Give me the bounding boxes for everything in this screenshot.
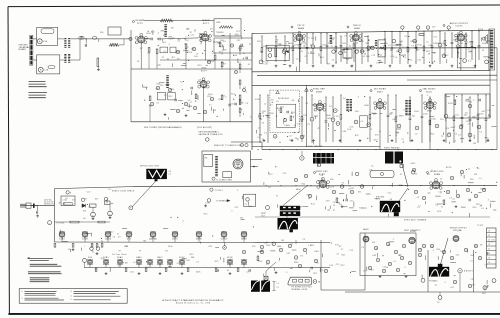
svg-text:M3: M3 [371,270,374,272]
svg-text:L4: L4 [479,178,481,180]
svg-text:RINGING: RINGING [376,197,385,199]
svg-text:R14: R14 [231,93,235,95]
svg-text:270K: 270K [369,46,375,48]
svg-text:C3: C3 [306,103,309,105]
svg-text:470K: 470K [328,42,334,44]
svg-text:1W: 1W [362,186,365,188]
svg-text:5%: 5% [199,79,202,81]
svg-text:1 MEG: 1 MEG [286,43,293,45]
svg-text:C3: C3 [276,101,279,103]
svg-text:R22: R22 [411,41,415,43]
svg-text:M3: M3 [125,263,128,265]
svg-text:10%: 10% [289,140,293,142]
svg-text:.01: .01 [481,208,484,210]
svg-text:47: 47 [341,249,343,251]
svg-text:C12: C12 [371,55,375,57]
svg-text:68: 68 [165,251,167,253]
svg-text:68: 68 [321,175,323,177]
svg-text:C9: C9 [361,247,364,249]
svg-text:5%: 5% [210,29,213,31]
svg-text:C9: C9 [342,182,345,184]
svg-text:47: 47 [209,105,211,107]
svg-text:R14: R14 [311,203,315,205]
svg-text:C12: C12 [408,60,412,62]
svg-text:C31: C31 [237,40,241,42]
svg-text:M3: M3 [390,50,393,52]
svg-text:BOARD: BOARD [19,48,27,51]
svg-text:10%: 10% [217,43,221,45]
svg-text:47: 47 [454,37,456,39]
svg-text:.01: .01 [290,244,293,246]
svg-text:A PHOTOFACT STANDARD NOTATION: A PHOTOFACT STANDARD NOTATION SCHEMATIC [162,299,223,302]
svg-text:47: 47 [333,210,335,212]
svg-text:5%: 5% [469,52,472,54]
svg-text:.01: .01 [430,247,433,249]
svg-text:R22: R22 [215,261,219,263]
svg-text:C9: C9 [485,265,488,267]
svg-text:R7: R7 [339,246,342,248]
svg-text:F: F [70,192,71,194]
svg-text:R14: R14 [259,261,263,263]
svg-text:12DQ6A: 12DQ6A [453,229,462,232]
svg-text:R22: R22 [431,134,435,136]
svg-text:1500: 1500 [277,44,282,46]
svg-text:R7: R7 [390,114,393,116]
svg-text:C3: C3 [246,103,249,105]
svg-text:6CL6: 6CL6 [426,91,432,93]
svg-text:1 MEG: 1 MEG [467,42,474,44]
svg-text:4.5: 4.5 [468,60,471,62]
svg-text:.5: .5 [487,199,489,201]
svg-text:M3: M3 [281,240,284,242]
svg-text:18: 18 [488,231,490,233]
svg-text:C9: C9 [344,36,347,38]
svg-text:DEFLECTION YOKE: DEFLECTION YOKE [140,165,160,167]
svg-text:47: 47 [117,234,119,236]
svg-text:22: 22 [262,139,264,141]
svg-text:C31: C31 [403,110,407,112]
svg-text:L4: L4 [238,62,240,64]
svg-text:M3: M3 [417,50,420,52]
svg-text:L4: L4 [307,37,309,39]
svg-text:M3: M3 [348,57,351,59]
svg-text:R22: R22 [204,213,208,215]
svg-text:R22: R22 [208,61,212,63]
svg-text:4700: 4700 [417,45,422,47]
svg-text:R22: R22 [341,265,345,267]
svg-text:.01: .01 [177,41,180,43]
svg-text:AUDIO OUTPUT: AUDIO OUTPUT [450,22,469,25]
svg-text:4BN6: 4BN6 [354,28,361,30]
svg-text:WHEN SET TO REMOTE RESET: WHEN SET TO REMOTE RESET [214,145,244,147]
svg-text:.01: .01 [470,260,473,262]
svg-text:L4: L4 [436,205,438,207]
svg-text:VERT OSC: VERT OSC [316,171,328,173]
svg-text:L4: L4 [454,141,456,143]
svg-text:3.: 3. [71,291,73,293]
svg-text:T2: T2 [276,196,278,198]
svg-text:47: 47 [162,57,164,59]
svg-text:68: 68 [292,100,294,102]
svg-text:10%: 10% [330,187,334,189]
svg-text:.01: .01 [166,58,169,60]
svg-text:C12: C12 [388,192,392,194]
svg-text:.003: .003 [372,255,376,257]
svg-text:680K: 680K [359,41,365,43]
svg-text:10%: 10% [347,129,351,131]
svg-text:TO TUNER TERM: TO TUNER TERM [216,180,232,182]
svg-text:.01: .01 [452,199,455,201]
svg-text:L4: L4 [303,136,305,138]
svg-text:C12: C12 [297,123,301,125]
svg-text:C9: C9 [118,237,121,239]
svg-text:L4: L4 [455,134,457,136]
svg-text:4.5: 4.5 [361,121,364,123]
svg-text:.5: .5 [426,95,428,97]
svg-text:10%: 10% [460,124,464,126]
svg-text:R7: R7 [213,61,216,63]
svg-text:5%: 5% [329,106,332,108]
svg-text:R14: R14 [379,55,383,57]
svg-text:.001: .001 [300,119,304,121]
svg-text:56K: 56K [355,111,359,113]
svg-text:VHF TUNER (INTERCHANGEABLE): VHF TUNER (INTERCHANGEABLE) [144,126,182,129]
svg-text:10%: 10% [465,100,469,102]
svg-text:.5: .5 [473,100,475,102]
svg-text:47: 47 [190,102,192,104]
svg-text:C12: C12 [477,113,481,115]
svg-text:C3: C3 [479,132,482,134]
svg-text:L4: L4 [440,179,442,181]
svg-text:.01: .01 [415,173,418,175]
svg-text:1ST IF: 1ST IF [297,25,305,27]
svg-text:47: 47 [474,246,476,248]
svg-text:C12: C12 [383,266,387,268]
svg-text:T2: T2 [187,29,189,31]
svg-text:10%: 10% [207,96,211,98]
svg-text:.1: .1 [392,239,394,241]
svg-text:L4: L4 [148,53,150,55]
svg-text:SPKR: SPKR [478,29,484,31]
svg-text:47: 47 [305,56,307,58]
svg-text:.0015: .0015 [410,163,415,165]
svg-text:VERT: VERT [261,213,266,215]
svg-text:1W: 1W [259,134,262,136]
svg-text:C9: C9 [411,46,414,48]
svg-text:68: 68 [208,36,210,38]
svg-text:M3: M3 [358,191,361,193]
svg-text:4700: 4700 [453,40,458,42]
svg-text:R14: R14 [307,194,311,196]
svg-text:8CY7: 8CY7 [201,70,208,72]
svg-text:R7: R7 [177,59,180,61]
svg-text:6AX4: 6AX4 [136,256,141,259]
svg-text:M3: M3 [338,203,341,205]
svg-text:C31: C31 [258,116,262,118]
svg-text:R22: R22 [169,96,173,98]
svg-text:TO PIN 3: TO PIN 3 [215,190,223,192]
svg-text:M3: M3 [83,211,86,213]
svg-text:R14: R14 [280,106,284,108]
svg-text:.068: .068 [470,255,474,257]
svg-text:5%: 5% [191,49,194,51]
svg-text:.01: .01 [487,110,490,112]
svg-text:MIXER: MIXER [202,20,210,22]
svg-text:10K: 10K [262,111,266,113]
svg-text:R22: R22 [313,273,317,275]
svg-text:M3: M3 [240,217,243,219]
svg-text:3.9: 3.9 [169,171,172,173]
svg-text:R22: R22 [198,65,202,67]
svg-text:B BOOST: B BOOST [464,271,473,273]
svg-text:.01: .01 [383,39,386,41]
svg-text:C12: C12 [87,192,91,194]
svg-text:1.0K: 1.0K [264,64,269,66]
svg-text:.5: .5 [491,242,493,244]
svg-text:M3: M3 [95,198,98,200]
svg-text:R22: R22 [302,184,306,186]
svg-text:.047: .047 [286,253,290,255]
svg-text:10%: 10% [326,200,330,202]
svg-text:INTERLOCK: INTERLOCK [44,204,56,206]
svg-text:.01: .01 [399,174,402,176]
svg-text:5%: 5% [316,262,319,264]
svg-text:.047: .047 [450,287,454,289]
svg-text:.01: .01 [248,43,251,45]
svg-text:18: 18 [488,244,490,246]
svg-text:M3: M3 [144,240,147,242]
svg-text:.01: .01 [293,125,296,127]
svg-text:R7: R7 [270,104,273,106]
svg-text:R14: R14 [374,139,378,141]
svg-text:.5: .5 [168,44,170,46]
svg-text:1500: 1500 [414,111,419,113]
svg-text:470K: 470K [255,99,261,101]
svg-text:.02: .02 [348,46,351,48]
svg-text:R22: R22 [342,255,346,257]
svg-text:68: 68 [271,100,273,102]
svg-text:.01: .01 [434,284,437,286]
svg-text:C3: C3 [65,198,68,200]
svg-text:18: 18 [488,258,490,260]
svg-text:R7: R7 [222,63,225,65]
svg-text:.01: .01 [300,51,303,53]
svg-text:C12: C12 [235,34,239,36]
svg-text:22: 22 [333,205,335,207]
svg-text:C3: C3 [321,270,324,272]
svg-text:1500: 1500 [423,113,428,115]
svg-text:SHOWN IN TUNER POS: SHOWN IN TUNER POS [199,134,224,136]
svg-text:1W: 1W [380,203,383,205]
svg-text:L4: L4 [395,57,397,59]
svg-text:R14: R14 [101,258,105,260]
svg-text:10%: 10% [238,48,242,50]
svg-text:C31: C31 [417,60,421,62]
svg-text:4BZ7: 4BZ7 [377,91,383,93]
svg-text:2.1: 2.1 [277,287,280,289]
svg-text:1.: 1. [22,291,24,293]
svg-text:68: 68 [260,119,262,121]
svg-text:10%: 10% [445,128,449,130]
svg-text:120: 120 [440,119,444,121]
svg-text:R22: R22 [190,254,194,256]
svg-text:4.: 4. [71,296,73,298]
svg-text:R14: R14 [331,38,335,40]
svg-text:RF AMP: RF AMP [136,19,145,22]
svg-text:.01: .01 [415,134,418,136]
svg-text:100K: 100K [301,43,307,45]
svg-text:R22: R22 [149,105,153,107]
svg-text:100K: 100K [482,43,488,45]
svg-text:M3: M3 [59,203,62,205]
svg-text:.0047: .0047 [436,43,442,45]
svg-text:3300: 3300 [263,46,268,48]
svg-text:L4: L4 [474,48,476,50]
svg-text:R7: R7 [414,240,417,242]
svg-text:OSC: OSC [201,68,206,70]
svg-text:10%: 10% [188,52,192,54]
svg-text:3300: 3300 [294,262,299,264]
svg-text:SYNC SEP: SYNC SEP [313,89,326,91]
svg-text:.02: .02 [246,272,249,274]
svg-text:C12: C12 [145,267,149,269]
svg-text:L4: L4 [264,104,266,106]
svg-text:22: 22 [186,47,188,49]
svg-text:C3: C3 [113,236,116,238]
svg-text:5%: 5% [141,43,144,45]
svg-text:1000: 1000 [168,246,173,248]
svg-text:C3: C3 [264,133,267,135]
svg-text:6DA4: 6DA4 [117,256,122,259]
svg-text:M3: M3 [474,174,477,176]
svg-text:9U8A: 9U8A [434,173,440,176]
svg-text:Howard W. Sams & Co., Inc. 195: Howard W. Sams & Co., Inc. 1958 [176,302,210,305]
svg-text:R7: R7 [275,166,278,168]
svg-text:5.2: 5.2 [169,173,172,175]
svg-text:C31: C31 [369,170,373,172]
svg-text:22K: 22K [303,115,307,117]
svg-text:6AW8A: 6AW8A [149,238,157,241]
svg-text:1W: 1W [241,103,244,105]
svg-text:C9: C9 [485,38,488,40]
svg-text:C12: C12 [191,34,195,36]
svg-text:.01: .01 [221,232,224,234]
svg-text:68: 68 [448,133,450,135]
svg-text:68: 68 [406,47,408,49]
svg-text:.01: .01 [68,249,71,251]
svg-text:47: 47 [417,197,419,199]
svg-text:5.: 5. [71,299,73,301]
svg-text:C3: C3 [302,239,305,241]
svg-text:M3: M3 [261,250,264,252]
svg-text:.01: .01 [332,60,335,62]
svg-text:100K: 100K [364,105,370,107]
svg-text:M3: M3 [178,39,181,41]
svg-text:C9: C9 [118,266,121,268]
svg-text:.022: .022 [208,246,212,248]
svg-text:R14: R14 [157,84,161,86]
svg-text:680K: 680K [296,189,301,191]
svg-text:AGC: AGC [233,54,238,57]
svg-text:.01: .01 [362,56,365,58]
svg-text:47: 47 [402,139,404,141]
svg-text:C31: C31 [428,45,432,47]
svg-text:.001: .001 [411,115,415,117]
svg-text:C3: C3 [268,187,271,189]
svg-text:68: 68 [223,41,225,43]
svg-text:1 MEG: 1 MEG [397,115,404,117]
svg-text:3BU8: 3BU8 [316,91,323,93]
svg-text:TO 12B4: TO 12B4 [56,222,64,224]
svg-text:68: 68 [315,251,317,253]
svg-text:ITV INTERLOCK PLUG: ITV INTERLOCK PLUG [291,287,312,289]
svg-text:L4: L4 [450,198,452,200]
svg-text:5%: 5% [266,264,269,266]
svg-text:39K: 39K [459,43,463,45]
svg-text:18: 18 [488,262,490,264]
svg-text:R14: R14 [277,108,281,110]
svg-text:1W: 1W [124,246,127,248]
svg-text:TO PIX: TO PIX [477,225,483,227]
svg-text:.01: .01 [257,137,260,139]
svg-text:220: 220 [160,85,164,87]
svg-text:[OSC ADJUST]: [OSC ADJUST] [197,126,213,129]
svg-text:T2: T2 [418,205,420,207]
svg-text:.5: .5 [245,92,247,94]
svg-text:39K: 39K [342,43,346,45]
svg-text:C12: C12 [236,31,240,33]
svg-text:4AM8: 4AM8 [298,27,305,30]
svg-text:OSC: OSC [482,293,487,295]
svg-text:47: 47 [434,53,436,55]
svg-text:.047: .047 [392,119,396,121]
svg-text:2ND IF: 2ND IF [353,25,361,27]
svg-text:C9: C9 [184,44,187,46]
svg-text:22: 22 [487,139,489,141]
svg-text:.01: .01 [108,189,111,191]
svg-text:47: 47 [85,198,87,200]
svg-text:M3: M3 [473,143,476,145]
svg-text:OS: OS [437,302,440,304]
svg-text:L4: L4 [408,49,410,51]
svg-text:C31: C31 [350,200,354,202]
svg-text:1W: 1W [311,38,314,40]
svg-text:10%: 10% [175,52,179,54]
svg-text:10%: 10% [170,89,174,91]
svg-text:.005: .005 [130,272,134,274]
svg-text:.5: .5 [376,249,378,251]
svg-text:R14: R14 [320,57,324,59]
svg-text:L4: L4 [133,262,135,264]
svg-text:10%: 10% [298,207,302,209]
svg-text:10%: 10% [186,260,190,262]
svg-text:T2: T2 [296,59,298,61]
svg-text:6DQ6: 6DQ6 [227,257,233,259]
svg-text:47: 47 [250,117,252,119]
svg-text:C31: C31 [231,103,235,105]
svg-text:C3: C3 [404,36,407,38]
svg-text:.5: .5 [182,220,184,222]
svg-text:10%: 10% [329,265,333,267]
svg-text:68: 68 [184,39,186,41]
svg-text:1ST VIDEO: 1ST VIDEO [374,89,387,91]
svg-text:5U4: 5U4 [88,257,92,259]
svg-text:2ND VIDEO: 2ND VIDEO [422,89,435,91]
svg-text:C31: C31 [491,240,495,242]
svg-text:C31: C31 [438,191,442,193]
svg-text:R7: R7 [140,48,143,50]
svg-text:L4: L4 [196,54,198,56]
